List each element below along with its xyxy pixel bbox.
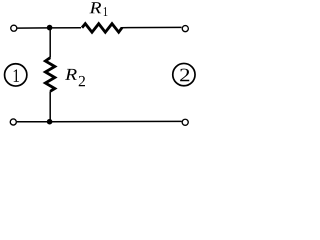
label R2: [65, 69, 77, 80]
wire: bottom, terminal 1' to node B: [17, 121, 50, 123]
port 1 marker circle: [5, 64, 27, 86]
terminal: top-left open circle: [11, 25, 17, 31]
resistor R2 (vertical zigzag): [45, 58, 54, 92]
node A junction dot (top): [47, 25, 53, 31]
terminal: bottom-left open circle: [10, 119, 16, 125]
port 1 digit: [14, 69, 19, 82]
wire: top, node A to resistor R1 left lead: [48, 27, 82, 29]
terminal: top-right open circle: [182, 26, 188, 32]
wire: bottom, node B to terminal 2': [50, 120, 182, 122]
wire: top, left segment from terminal 1 to node A: [17, 27, 47, 29]
resistor R1 (horizontal zigzag): [82, 24, 122, 33]
label R1 subscript: [104, 7, 108, 16]
wire: vertical stub from node A down to resistor R2: [49, 28, 51, 58]
port 2 digit: [180, 69, 189, 82]
terminal: bottom-right open circle: [182, 119, 188, 125]
wire: top, resistor R1 right lead to terminal 2: [121, 26, 182, 28]
node B junction dot (bottom): [47, 119, 53, 125]
label R2 subscript: [79, 76, 85, 86]
label R1: [89, 2, 101, 13]
port 2 marker circle: [173, 63, 195, 85]
wire: vertical stub from resistor R2 down to node B: [49, 91, 51, 121]
